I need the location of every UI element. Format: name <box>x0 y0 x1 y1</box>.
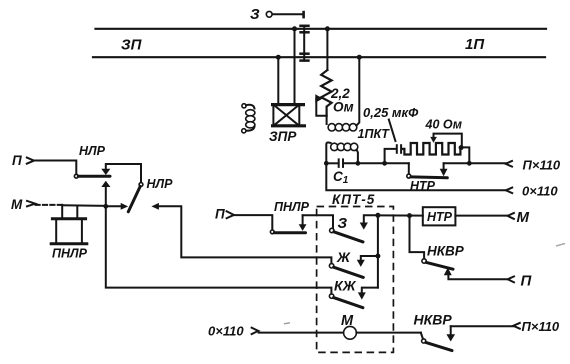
inductor coil left of ЗПР <box>242 104 255 133</box>
relay ЗПР (crossed-box) <box>269 105 306 144</box>
wire rail 1П to relay ЗПР <box>277 57 279 103</box>
svg-text:0,25 мкФ: 0,25 мкФ <box>363 105 419 120</box>
svg-text:З: З <box>338 215 348 232</box>
wire П input (second) <box>215 207 272 230</box>
wire П input (top left) <box>12 153 76 174</box>
wire 0x110 input (bottom left) <box>208 324 258 339</box>
wire rail ЗП to resistor <box>326 29 328 70</box>
contact НЛР (first, changeover) <box>74 144 141 206</box>
svg-text:1П: 1П <box>465 36 485 53</box>
contact НТР (in П×110 line) <box>407 163 448 193</box>
svg-text:0×110: 0×110 <box>522 184 558 199</box>
contact КЖ of КПТ-5 <box>317 278 378 308</box>
rail 1П (second track line) <box>93 36 545 57</box>
resistor 2,2 Ом (zigzag with tap) <box>315 70 353 116</box>
contact Ж of КПТ-5 <box>317 249 378 277</box>
svg-text:1ПКТ: 1ПКТ <box>358 127 391 141</box>
svg-text:40 Ом: 40 Ом <box>425 118 463 132</box>
lamp М <box>259 313 421 339</box>
svg-text:НЛР: НЛР <box>147 177 174 191</box>
svg-text:НКВР: НКВР <box>427 244 465 259</box>
node: left bus junction <box>103 204 108 209</box>
rail ЗП (top track line) <box>96 29 547 54</box>
transformer 1ПКТ primary winding <box>327 57 360 131</box>
junction on rail 1П (transformer feed) <box>357 55 362 60</box>
node З (terminal with circle) <box>250 6 304 23</box>
wire shunt to line <box>462 147 470 163</box>
svg-text:М: М <box>517 209 530 226</box>
contact НКВР (upper) <box>410 216 533 290</box>
svg-text:0×110: 0×110 <box>208 324 244 339</box>
svg-text:ЗП: ЗП <box>121 37 143 54</box>
svg-text:П×110: П×110 <box>523 158 561 173</box>
wire left bus to КЖ feed <box>106 206 317 287</box>
faint scan smudge right <box>556 244 565 247</box>
wire НЛР to Ж feed <box>159 206 317 257</box>
node: С1 left junction <box>324 161 329 166</box>
capacitor С1 <box>326 158 409 186</box>
capacitor 0,25 мкФ <box>363 105 419 163</box>
faint scan smudge left of lamp wire <box>284 323 290 324</box>
node: shunt right junction <box>467 161 472 166</box>
svg-text:П: П <box>215 207 225 222</box>
svg-text:Ом: Ом <box>333 100 354 115</box>
svg-text:П: П <box>12 153 22 168</box>
contact НЛР (second, changeover) <box>106 177 173 212</box>
wire М input (dashed) <box>11 197 62 212</box>
svg-text:П: П <box>521 273 533 290</box>
wire 0x110 (from С1 node to right output) <box>326 163 558 198</box>
dashed box КПТ-5 <box>317 192 394 352</box>
svg-text:П×110: П×110 <box>522 319 560 334</box>
svg-text:НТР: НТР <box>410 179 436 193</box>
transformer 1ПКТ secondary winding <box>326 142 358 163</box>
node: bus Ж junction <box>375 254 380 259</box>
svg-text:КЖ: КЖ <box>334 278 357 294</box>
relay ПНЛР (coil) <box>50 205 106 261</box>
wire З feed (from ПНЛР contact into box) <box>303 215 334 232</box>
wire bus of КПТ-5 <box>377 215 379 287</box>
svg-text:ЗПР: ЗПР <box>269 129 297 144</box>
svg-text:НТР: НТР <box>427 210 453 224</box>
insulator symbol on rail ЗП <box>299 26 309 33</box>
junction on rail ЗП (resistor drop) <box>325 26 330 31</box>
svg-text:НЛР: НЛР <box>79 144 106 158</box>
svg-text:ПНЛР: ПНЛР <box>52 247 88 261</box>
relay box НТР <box>378 207 530 226</box>
contact НКВР (lower, in lamp circuit) <box>414 312 560 351</box>
node: meander right junction <box>459 145 464 150</box>
junction on rail ЗП <box>292 26 297 31</box>
svg-text:Ж: Ж <box>336 249 351 265</box>
wire rail ЗП to relay ЗПР <box>294 29 296 104</box>
node: shunt branch junction <box>382 161 387 166</box>
insulator symbol on rail 1П <box>299 54 309 61</box>
svg-text:М: М <box>11 197 23 212</box>
svg-text:З: З <box>250 6 260 23</box>
contact З of КПТ-5 <box>334 215 378 242</box>
wire between insulators <box>303 32 305 53</box>
svg-text:КПТ-5: КПТ-5 <box>332 192 375 207</box>
node: bus top junction <box>375 213 380 218</box>
resistor 40 Ом (meander with tap) <box>402 118 462 155</box>
junction on rail 1П <box>276 55 281 60</box>
contact ПНЛР <box>270 200 309 234</box>
wire П×110 (top right output) <box>444 158 561 173</box>
svg-text:НКВР: НКВР <box>414 312 453 328</box>
node: secondary right junction <box>356 161 361 166</box>
svg-text:ПНЛР: ПНЛР <box>274 200 310 214</box>
